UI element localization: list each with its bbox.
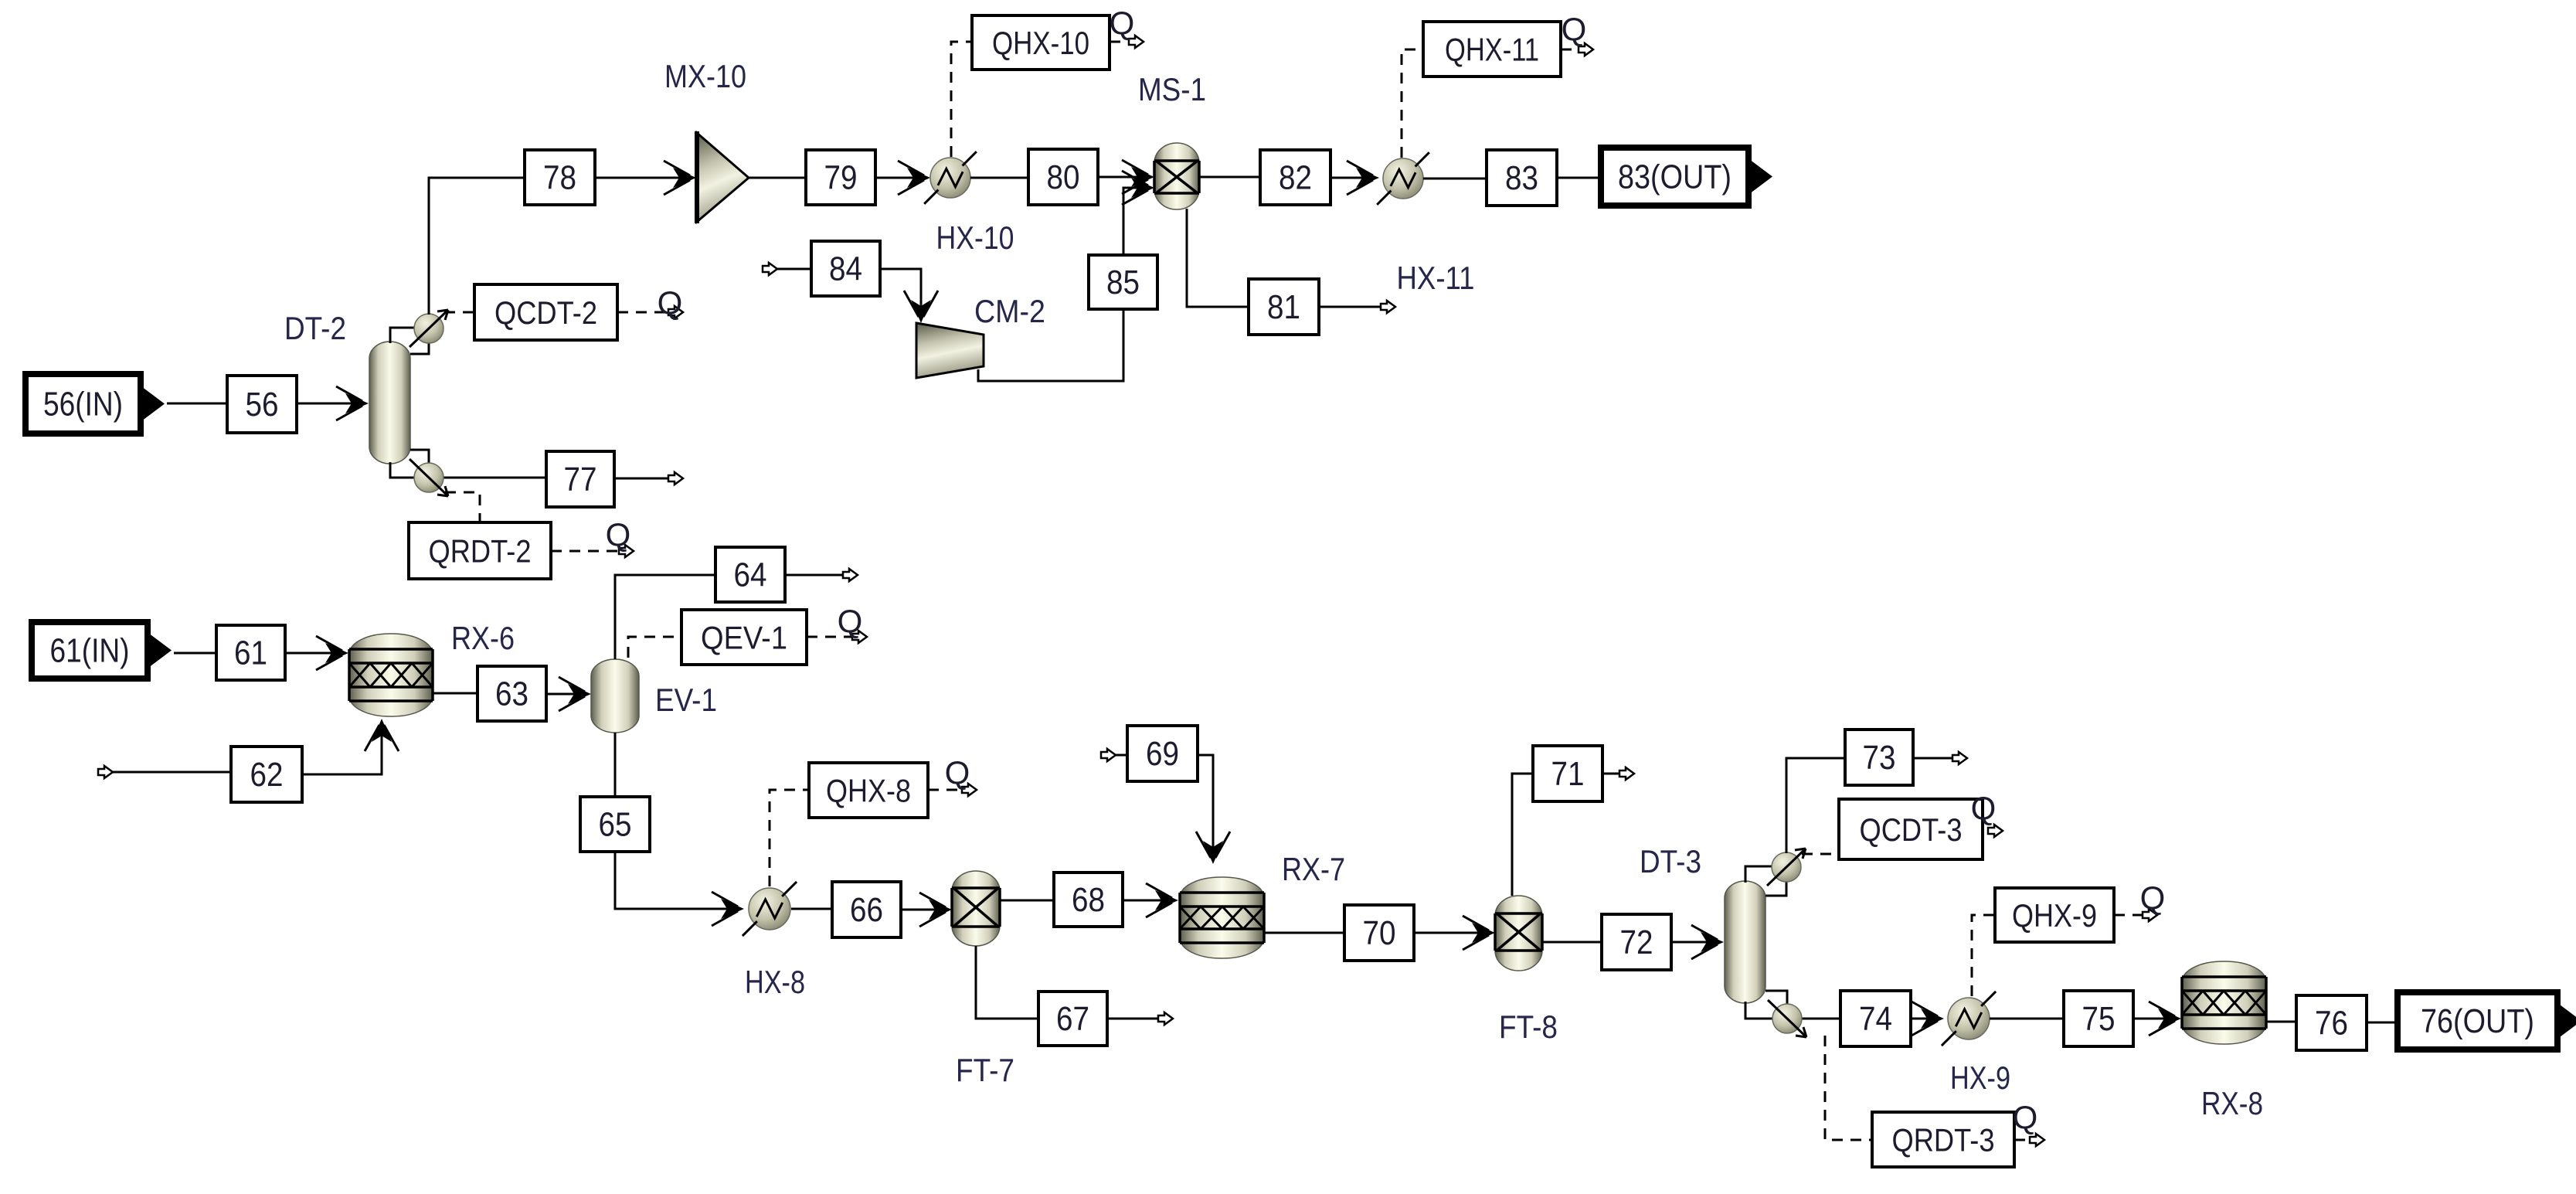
open arrow QEV-1 Q (852, 631, 867, 643)
duty box QHX-11 (1423, 22, 1561, 77)
column DT-3 (1725, 881, 1765, 1003)
reactor RX-6 (349, 634, 433, 716)
dashed duty wire HX-11 to QHX-11 (1402, 49, 1423, 158)
wire reboiler return of DT-3 (1765, 991, 1787, 1004)
open arrow QCDT-2 Q (668, 306, 683, 318)
stream box 69 (1127, 726, 1198, 781)
wire riser DT-2 vapor to stream 78 row (429, 178, 525, 315)
svg-text:Q: Q (658, 284, 683, 321)
svg-text:76(OUT): 76(OUT) (2421, 1002, 2534, 1040)
input stream box 56(IN) (25, 374, 165, 434)
svg-text:RX-6: RX-6 (451, 620, 515, 656)
stream box 83 (1487, 150, 1557, 206)
stream box 65 (580, 797, 650, 852)
open arrow 73 out (1952, 752, 1967, 764)
svg-text:70: 70 (1363, 914, 1396, 952)
dashed wire QHX-10 to Q out (1110, 41, 1136, 43)
open arrow QHX-9 Q (2143, 909, 2157, 921)
duty box QHX-10 (972, 15, 1110, 70)
arrow into EV-1 (559, 677, 591, 711)
wire 65 to HX-8 (615, 852, 740, 909)
svg-text:56: 56 (246, 386, 279, 424)
dashed duty wire HX-8 to QHX-8 (770, 790, 809, 886)
arrow into DT-2 (336, 386, 369, 420)
svg-text:Q: Q (606, 516, 631, 553)
heat exchanger HX-9 (1942, 992, 1996, 1046)
wire HX-10 to 80 (970, 177, 1028, 179)
svg-text:84: 84 (829, 250, 862, 288)
wire MS-1 bottoms to 81 (1187, 209, 1249, 307)
svg-text:66: 66 (850, 891, 883, 929)
arrow into MX-10 (664, 161, 696, 195)
compressor CM-2 (916, 323, 984, 378)
svg-text:82: 82 (1279, 159, 1312, 197)
arrow 85 into MS-1 (1122, 171, 1154, 205)
duty box QCDT-2 (474, 284, 617, 340)
condenser reflux return wire (410, 342, 429, 354)
stream box 72 (1602, 914, 1671, 970)
arrow into HX-9 (1912, 1002, 1944, 1036)
output stream box 76(OUT) (2398, 992, 2576, 1049)
duty box QHX-8 (809, 763, 928, 818)
svg-text:EV-1: EV-1 (655, 682, 717, 718)
wire riser DT-3 vapor to 73 (1786, 758, 1845, 853)
svg-text:61: 61 (234, 634, 267, 672)
svg-text:72: 72 (1620, 924, 1653, 961)
wire 61(IN) to box 61 (174, 652, 216, 655)
svg-text:83(OUT): 83(OUT) (1618, 158, 1731, 196)
wire HX-8 to 66 (791, 908, 832, 910)
mixer MX-10 (697, 131, 749, 223)
svg-text:HX-11: HX-11 (1397, 260, 1475, 296)
svg-text:65: 65 (599, 806, 632, 844)
reboiler circle of DT-2 (410, 459, 448, 496)
svg-text:77: 77 (564, 461, 597, 498)
stream box 84 (811, 241, 880, 296)
svg-text:73: 73 (1863, 739, 1896, 777)
wire FT-7 top to 68 (1000, 900, 1054, 902)
wire FT-7 bottoms to 67 (976, 946, 1038, 1019)
stream box 63 (477, 666, 546, 721)
condenser circle of DT-3 (1767, 849, 1806, 886)
svg-text:DT-3: DT-3 (1640, 843, 1701, 879)
dashed wire QEV-1 to Q out (807, 636, 858, 638)
dashed duty wire DT-2 condenser to QCDT-2 (444, 311, 474, 314)
stream box 61 (216, 625, 285, 680)
wire feed to 69 (1116, 754, 1127, 757)
open arrow 71 out (1619, 767, 1634, 780)
svg-text:Q: Q (1562, 11, 1587, 47)
open arrow QRDT-3 Q (2030, 1134, 2044, 1146)
heat exchanger HX-8 (743, 882, 797, 936)
stream box 85 (1089, 255, 1157, 309)
condenser reflux return wire DT-3 (1765, 880, 1786, 896)
wire CM-2 outlet to 85 riser (978, 309, 1123, 381)
svg-text:FT-8: FT-8 (1499, 1009, 1558, 1045)
dashed duty wire EV-1 to QEV-1 (628, 637, 681, 658)
dashed duty wire HX-9 to QHX-9 (1972, 915, 1995, 996)
svg-text:Q: Q (2013, 1099, 2038, 1135)
separator MS-1 (1154, 143, 1199, 209)
svg-text:QHX-10: QHX-10 (992, 25, 1089, 61)
dashed duty wire DT-2 reboiler to QRDT-2 (445, 492, 480, 522)
dashed wire QHX-11 to Q out (1561, 49, 1584, 51)
svg-text:79: 79 (824, 159, 858, 197)
wire RX-8 to 76 (2266, 1021, 2296, 1023)
wire 85 to MS-1 (1123, 188, 1146, 255)
svg-text:RX-7: RX-7 (1282, 851, 1345, 887)
svg-text:QRDT-3: QRDT-3 (1892, 1122, 1995, 1158)
stream box 67 (1038, 992, 1107, 1046)
wire 67 out (1107, 1018, 1165, 1020)
column DT-2 (369, 342, 410, 464)
wire RX-7 to 70 (1264, 932, 1344, 934)
open arrow QRDT-2 Q (619, 545, 634, 557)
wire 56(IN) to box 56 (167, 403, 227, 405)
svg-text:Q: Q (1110, 5, 1135, 41)
svg-text:81: 81 (1267, 288, 1300, 326)
wire 81 out (1319, 306, 1388, 308)
wire HX-9 to 75 (1990, 1018, 2064, 1020)
stream box 82 (1260, 150, 1330, 205)
wire feed to 62 (113, 771, 231, 774)
svg-text:MS-1: MS-1 (1138, 71, 1206, 107)
stream box 76 (2296, 995, 2367, 1050)
reactor RX-8 (2182, 961, 2266, 1044)
wire 61 to RX-6 (285, 652, 345, 655)
open arrow 67 out (1158, 1012, 1173, 1025)
open arrow feed 69 (1101, 749, 1116, 761)
wire 79 to HX-10 (875, 177, 926, 179)
wire DT-2 top to condenser (390, 328, 415, 343)
heat exchanger HX-11 (1377, 152, 1429, 205)
wire RX-6 to 63 (433, 692, 477, 695)
stream box 81 (1249, 279, 1319, 335)
wire MX-10 to 79 (749, 177, 806, 179)
svg-text:63: 63 (495, 675, 528, 713)
arrow 80 into MS-1 (1122, 160, 1154, 194)
evaporator EV-1 (591, 659, 639, 733)
svg-text:67: 67 (1056, 1000, 1089, 1038)
stream box 66 (832, 882, 901, 937)
dashed duty wire HX-10 to QHX-10 (951, 42, 972, 157)
svg-text:QHX-8: QHX-8 (826, 773, 911, 809)
duty box QRDT-2 (409, 522, 551, 579)
svg-text:85: 85 (1106, 264, 1140, 301)
open arrow QHX-10 Q (1129, 36, 1144, 48)
svg-text:62: 62 (250, 756, 284, 794)
wire 76 to 76(OUT) (2367, 1022, 2398, 1024)
arrow into CM-2 (904, 291, 938, 323)
arrow into HX-8 (712, 892, 744, 926)
dashed wire QRDT-2 to Q out (551, 550, 624, 553)
svg-text:74: 74 (1859, 1000, 1892, 1038)
reactor RX-7 (1180, 877, 1264, 958)
arrow 69 down into RX-7 (1196, 832, 1230, 864)
duty box QRDT-3 (1872, 1112, 2014, 1167)
arrow into RX-6 (316, 636, 348, 670)
svg-text:76: 76 (2315, 1005, 2348, 1043)
output stream box 83(OUT) (1601, 148, 1772, 206)
arrow into RX-7 (1146, 883, 1178, 917)
wire 78 to MX-10 (595, 177, 692, 179)
svg-text:Q: Q (1971, 790, 1997, 826)
wire 63 to EV-1 (546, 693, 587, 696)
input stream box 61(IN) (32, 622, 172, 679)
open arrow 81 out (1381, 301, 1395, 313)
open arrow QHX-11 Q (1579, 43, 1593, 56)
stream box 70 (1344, 905, 1414, 961)
dashed wire QHX-9 to Q out (2114, 914, 2148, 917)
stream box 79 (806, 150, 875, 205)
wire 83 to 83(OUT) (1557, 177, 1601, 179)
svg-text:80: 80 (1047, 158, 1080, 196)
wire 73 out (1913, 757, 1959, 760)
svg-text:HX-10: HX-10 (936, 219, 1014, 256)
open arrow 64 out (843, 569, 858, 581)
open arrow feed 84 (763, 263, 777, 275)
wire 69 to RX-7 top (1198, 755, 1213, 859)
svg-text:DT-2: DT-2 (284, 310, 346, 346)
wire DT-3 top to condenser (1745, 866, 1773, 883)
wire EV-1 vapor to 64 (615, 575, 715, 659)
stream box 73 (1845, 730, 1913, 785)
flash tank FT-8 (1495, 896, 1542, 971)
wire 74 to HX-9 (1911, 1018, 1940, 1020)
duty box QHX-9 (1995, 888, 2114, 942)
reboiler circle of DT-3 (1768, 1000, 1806, 1037)
wire reboiler return of DT-2 (410, 450, 429, 464)
wire 75 to RX-8 (2133, 1018, 2177, 1020)
arrow into FT-7 (919, 893, 952, 927)
wire 80 to MS-1 (1098, 176, 1150, 179)
wire DT-2 bottoms through reboiler (390, 462, 546, 478)
stream box 78 (525, 150, 595, 205)
wire MS-1 to 82 (1199, 176, 1260, 179)
dashed duty wire DT-3 reboiler to QRDT-3 (1825, 1036, 1872, 1140)
wire 70 to FT-8 (1414, 932, 1491, 934)
stream box 77 (546, 451, 614, 507)
wire 82 to HX-11 (1330, 177, 1375, 179)
stream box 56 (227, 376, 297, 433)
wire 84 to CM-2 (880, 269, 921, 318)
svg-text:QCDT-3: QCDT-3 (1860, 811, 1963, 848)
dashed wire QHX-8 to Q out (928, 789, 967, 791)
svg-text:FT-7: FT-7 (956, 1052, 1014, 1088)
heat exchanger HX-10 (924, 151, 977, 204)
wire 56 to DT-2 feed (297, 403, 365, 405)
svg-text:71: 71 (1551, 755, 1585, 793)
stream box 62 (231, 747, 302, 802)
svg-text:CM-2: CM-2 (974, 293, 1045, 329)
wire FT-8 top to 71 (1512, 774, 1533, 896)
svg-text:QHX-9: QHX-9 (2012, 897, 2097, 934)
arrow into DT-3 (1691, 925, 1724, 959)
svg-text:Q: Q (945, 754, 970, 791)
svg-text:64: 64 (734, 556, 767, 594)
condenser circle of DT-2 (410, 310, 448, 347)
wire EV-1 bottom to 65 (614, 733, 617, 797)
wire 66 to FT-7 (901, 909, 948, 911)
wire 62 to RX-6 bottom (302, 723, 382, 774)
wire FT-8 to 72 (1542, 941, 1602, 944)
stream box 68 (1054, 873, 1123, 927)
svg-text:83: 83 (1505, 159, 1538, 197)
svg-text:61(IN): 61(IN) (50, 632, 130, 670)
dashed wire QRDT-3 to Q out (2014, 1139, 2035, 1141)
wire 64 out (785, 574, 850, 577)
svg-text:MX-10: MX-10 (664, 58, 746, 94)
duty box QEV-1 (681, 610, 807, 665)
svg-text:69: 69 (1146, 735, 1179, 773)
arrow into RX-8 (2149, 1002, 2181, 1036)
open arrow QCDT-3 Q (1988, 825, 2003, 837)
wire HX-11 to 83 (1423, 178, 1487, 180)
arrow into HX-11 (1347, 161, 1379, 195)
svg-text:QEV-1: QEV-1 (701, 620, 787, 656)
svg-text:75: 75 (2082, 1000, 2116, 1038)
svg-text:HX-8: HX-8 (745, 964, 805, 1000)
stream box 75 (2064, 991, 2133, 1046)
svg-text:QCDT-2: QCDT-2 (494, 294, 597, 331)
arrow into HX-10 (898, 161, 930, 195)
svg-text:QHX-11: QHX-11 (1445, 32, 1539, 68)
svg-text:RX-8: RX-8 (2201, 1085, 2263, 1121)
stream box 80 (1028, 149, 1098, 205)
dashed duty wire DT-3 condenser to QCDT-3 (1802, 853, 1839, 856)
wire 72 to DT-3 (1671, 941, 1720, 944)
svg-text:Q: Q (2140, 879, 2166, 916)
wire 77 out (614, 478, 675, 480)
wire feed to 84 (777, 268, 811, 270)
stream box 71 (1533, 746, 1602, 801)
svg-text:QRDT-2: QRDT-2 (429, 533, 532, 570)
open arrow feed 62 (98, 766, 113, 778)
open arrow QHX-8 Q (962, 784, 977, 796)
duty box QCDT-3 (1839, 799, 1983, 859)
svg-text:Q: Q (838, 603, 863, 639)
wire 71 out (1602, 773, 1626, 775)
wire 68 to RX-7 (1123, 900, 1174, 902)
svg-text:HX-9: HX-9 (1950, 1060, 2010, 1096)
arrow into FT-8 (1463, 916, 1495, 950)
arrow 62 up into RX-6 (365, 719, 399, 751)
flash tank FT-7 (952, 871, 1000, 946)
open arrow 77 out (668, 472, 683, 485)
stream box 74 (1840, 991, 1911, 1046)
svg-text:56(IN): 56(IN) (43, 386, 123, 424)
wire DT-3 bottoms through reboiler (1745, 1002, 1840, 1019)
svg-text:78: 78 (543, 159, 576, 197)
stream box 64 (715, 547, 785, 602)
svg-text:68: 68 (1072, 881, 1105, 919)
dashed wire QCDT-2 to Q out (617, 311, 674, 314)
